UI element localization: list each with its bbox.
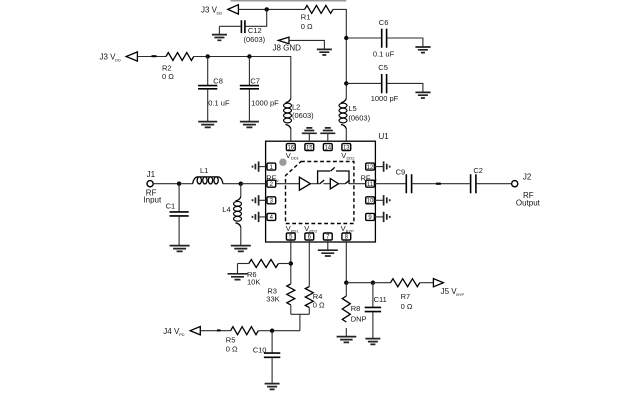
resistor R6 [238, 260, 291, 287]
wire amp1 out [310, 183, 319, 185]
svg-text:0 Ω: 0 Ω [301, 22, 313, 31]
pin1 marker dot [279, 159, 286, 166]
wire R2 to rail / rail across [194, 57, 291, 99]
pin 4 [259, 213, 276, 221]
svg-text:R2: R2 [162, 63, 172, 72]
pin 13 [341, 144, 355, 161]
wire pin2 to amp [276, 183, 300, 185]
bypass path [318, 167, 349, 183]
svg-text:PD: PD [179, 332, 185, 337]
svg-text:1000 pF: 1000 pF [371, 94, 399, 103]
resistor R3 [266, 284, 295, 314]
capacitor C11 [365, 283, 387, 338]
wire J3VDD2 to R2 [137, 56, 166, 58]
capacitor C5 [346, 63, 423, 103]
svg-text:0 Ω: 0 Ω [162, 72, 174, 81]
ground C5 [415, 92, 430, 98]
svg-text:C11: C11 [374, 295, 387, 304]
svg-text:C1: C1 [166, 201, 176, 210]
node junction R8 [344, 281, 348, 285]
capacitor C8 [198, 57, 230, 122]
wire pin8 down [345, 240, 347, 283]
wire R1 to rail [333, 9, 346, 98]
svg-text:33K: 33K [266, 295, 279, 304]
connector J5 VBYP [433, 279, 464, 297]
svg-text:C9: C9 [396, 168, 406, 177]
svg-text:L2: L2 [292, 102, 300, 111]
wire top edge [231, 0, 347, 2]
ground (inverted) pin14 [320, 128, 335, 141]
svg-text:R8: R8 [351, 304, 361, 313]
svg-text:R7: R7 [401, 292, 411, 301]
pin 11 [361, 173, 378, 188]
svg-text:C7: C7 [250, 76, 260, 85]
wire J8 to ground [289, 40, 324, 49]
svg-text:10K: 10K [247, 278, 260, 287]
pin 6 [304, 224, 318, 241]
svg-text:11: 11 [367, 182, 374, 188]
connector J4 VPD [163, 327, 200, 338]
wire to pin2 [241, 183, 267, 185]
wire R3 R4 join [291, 314, 310, 330]
svg-text:Input: Input [143, 195, 162, 204]
node junction C7 [247, 54, 251, 58]
connector J3 VDD (top) [201, 5, 238, 16]
svg-text:R4: R4 [313, 292, 323, 301]
node junction C8 [206, 54, 210, 58]
svg-text:R5: R5 [226, 335, 236, 344]
wire tick [217, 329, 221, 331]
resistor R8 [342, 283, 366, 336]
wire tick [152, 55, 157, 57]
svg-text:C6: C6 [379, 18, 389, 27]
node junction C1 [177, 182, 181, 186]
svg-text:DD1: DD1 [291, 156, 300, 161]
pin 15 [305, 144, 314, 152]
capacitor C9 [374, 168, 411, 194]
wire pin6 down [308, 240, 310, 287]
node junction R6 [289, 261, 293, 265]
svg-text:C8: C8 [213, 76, 223, 85]
capacitor C12 [219, 9, 266, 44]
amplifier stage 1 [299, 177, 310, 190]
pin 9 [366, 213, 384, 221]
capacitor C6 [346, 18, 423, 59]
svg-text:10: 10 [367, 199, 374, 205]
wire J4 to R5 [200, 330, 230, 332]
svg-text:15: 15 [306, 145, 313, 151]
wire pin8 node across [346, 282, 390, 284]
svg-text:0 Ω: 0 Ω [401, 302, 413, 311]
inductor L4 [222, 184, 241, 245]
wire tick [436, 183, 441, 185]
pin 12 [366, 163, 384, 171]
svg-text:J5 V: J5 V [441, 287, 458, 296]
wire L2 to pin16 [290, 129, 292, 144]
svg-text:J8 GND: J8 GND [273, 44, 302, 53]
svg-text:BYP: BYP [456, 292, 464, 297]
pin 7 [323, 233, 332, 241]
wire C9 to C2 [412, 183, 470, 185]
switch lever 2 [345, 180, 349, 184]
svg-text:C5: C5 [378, 63, 388, 72]
ground (side) pin1 [253, 161, 259, 171]
svg-text:1000 pF: 1000 pF [251, 98, 279, 107]
resistor R7 [391, 279, 434, 311]
inductor L5 [339, 98, 371, 129]
svg-text:J4 V: J4 V [163, 327, 180, 336]
svg-text:0 Ω: 0 Ω [226, 345, 238, 354]
ground C1 [170, 246, 190, 252]
ground (side) pin10 [384, 195, 390, 205]
inductor L1 [179, 166, 241, 184]
wire J1 to C1 node [153, 183, 179, 185]
ground (side) pin9 [384, 212, 390, 222]
node junction C12/R1 [265, 7, 269, 11]
svg-text:14: 14 [324, 145, 331, 151]
svg-text:L5: L5 [348, 104, 356, 113]
svg-text:L4: L4 [222, 205, 230, 214]
pin 1 [259, 163, 276, 171]
svg-text:DD: DD [115, 58, 121, 63]
svg-text:(0603): (0603) [292, 111, 314, 120]
wire to pin11 [349, 183, 366, 185]
svg-text:12: 12 [367, 165, 374, 171]
ground C8 [198, 122, 217, 128]
connector J8 GND [273, 37, 302, 52]
ground R6 [228, 264, 248, 280]
inductor L2 [284, 98, 315, 129]
svg-text:Output: Output [516, 198, 541, 207]
svg-text:C12: C12 [248, 26, 262, 35]
svg-text:J1: J1 [147, 170, 156, 179]
capacitor C2 [471, 166, 512, 193]
capacitor C10 [253, 331, 281, 383]
pin 3 [259, 197, 276, 205]
ground C10 [265, 384, 280, 390]
svg-text:0.1 uF: 0.1 uF [373, 49, 395, 58]
wire L5 to pin13 [345, 129, 347, 144]
ground R8 [337, 337, 357, 343]
resistor R1 [301, 5, 333, 31]
pin 14 [323, 144, 332, 152]
dashed internal block [286, 162, 354, 224]
wire amp2 out [339, 183, 346, 185]
connector J1 RF Input [143, 170, 162, 204]
pin 16 [286, 144, 300, 161]
svg-text:C10: C10 [253, 345, 267, 354]
svg-text:L1: L1 [200, 166, 208, 175]
capacitor C1 [166, 184, 189, 245]
node junction C6 rail [344, 36, 348, 40]
pin 5 [286, 224, 300, 241]
node junction L4 [239, 182, 243, 186]
wire J3VDD to R1 [238, 8, 304, 10]
ground (side) pin12 [384, 161, 390, 171]
svg-text:R1: R1 [301, 13, 311, 22]
svg-text:DD2: DD2 [347, 156, 356, 161]
svg-text:C2: C2 [473, 166, 483, 175]
node junction C11 [371, 281, 375, 285]
ground C6 [415, 47, 430, 53]
switch lever 1 [320, 180, 324, 184]
ground C12 [212, 26, 227, 40]
ground C11 [365, 339, 380, 345]
pin 2 [266, 173, 278, 188]
ground J8 [317, 49, 332, 55]
svg-text:J2: J2 [523, 172, 532, 181]
ground pin7 [318, 240, 338, 256]
resistor R5 [226, 327, 300, 354]
amplifier stage 2 [330, 179, 338, 189]
capacitor C7 [240, 57, 279, 122]
svg-text:U1: U1 [379, 132, 390, 141]
svg-text:J3 V: J3 V [100, 53, 117, 62]
svg-text:0.1 uF: 0.1 uF [208, 98, 230, 107]
svg-text:0 Ω: 0 Ω [313, 301, 325, 310]
ground C7 [240, 122, 259, 128]
node junction C10 [270, 329, 274, 333]
svg-text:DNP: DNP [351, 315, 367, 324]
ground (side) pin3 [253, 195, 259, 205]
wire pin5 down [290, 240, 292, 284]
op-amp U1 body [266, 132, 390, 242]
svg-text:(0603): (0603) [244, 35, 266, 44]
node junction C5 rail [344, 81, 348, 85]
connector J2 RF Output [512, 172, 541, 207]
svg-text:J3 V: J3 V [201, 6, 218, 15]
svg-text:DD: DD [217, 11, 223, 16]
svg-text:(0603): (0603) [348, 113, 370, 122]
ground L4 [231, 246, 251, 252]
wire to amp2 [323, 183, 330, 185]
ground (inverted) pin15 [302, 128, 317, 141]
connector J3 VDD (left) [100, 52, 138, 63]
pin 8 [341, 224, 355, 241]
ground (side) pin4 [253, 212, 259, 222]
resistor R2 [162, 53, 194, 82]
resistor R4 [305, 287, 325, 315]
pin 10 [366, 197, 384, 205]
